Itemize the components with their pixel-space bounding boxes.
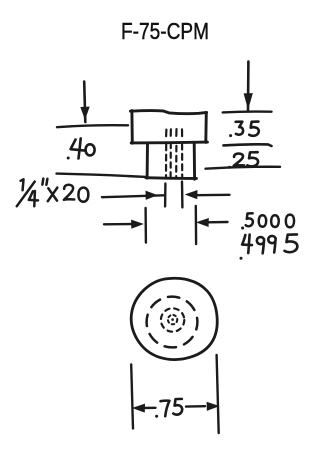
part body outline	[146, 143, 197, 179]
.75 extension line left	[131, 365, 133, 429]
extension line .40 top	[57, 125, 128, 127]
dimension text .4995	[240, 234, 298, 259]
dimension line .35/.25 middle	[223, 144, 271, 146]
dimension text .25	[228, 152, 258, 169]
thread dim arrow left	[102, 191, 164, 199]
dimension text .75	[155, 399, 182, 418]
.75 extension line right	[217, 355, 219, 433]
thread extension line right	[181, 182, 184, 208]
.75 dim arrow right	[186, 402, 218, 410]
svg-text:F-75-CPM: F-75-CPM	[121, 18, 209, 44]
title F-75-CPM	[121, 18, 209, 44]
OD extension line right	[195, 206, 198, 244]
center mark	[168, 315, 177, 324]
bottom view outer circle	[131, 278, 217, 359]
thread extension line left	[164, 184, 167, 207]
dimension text .35	[229, 122, 259, 138]
bolt circle dashed (middle)	[147, 297, 198, 348]
hidden thread dashed lines	[166, 129, 182, 176]
thread dim arrow right	[186, 191, 229, 199]
arrow down right (.35 pointer)	[244, 62, 252, 111]
OD dim arrow right	[198, 219, 228, 227]
dimension line .35 top	[223, 110, 272, 113]
part head outline	[130, 111, 207, 144]
dimension line .25 bottom	[206, 167, 281, 169]
extension line .40 bottom (runs to part base)	[57, 174, 147, 177]
OD dim arrow left	[104, 220, 142, 228]
inner dashed circle	[161, 308, 184, 331]
.75 dim arrow left	[134, 404, 156, 412]
OD extension line left	[144, 208, 147, 243]
dimension text .40	[67, 138, 95, 159]
dimension text .5000	[241, 213, 294, 229]
thread callout text 1/4"x20	[17, 179, 89, 207]
arrow down left (.40 pointer)	[81, 82, 89, 123]
